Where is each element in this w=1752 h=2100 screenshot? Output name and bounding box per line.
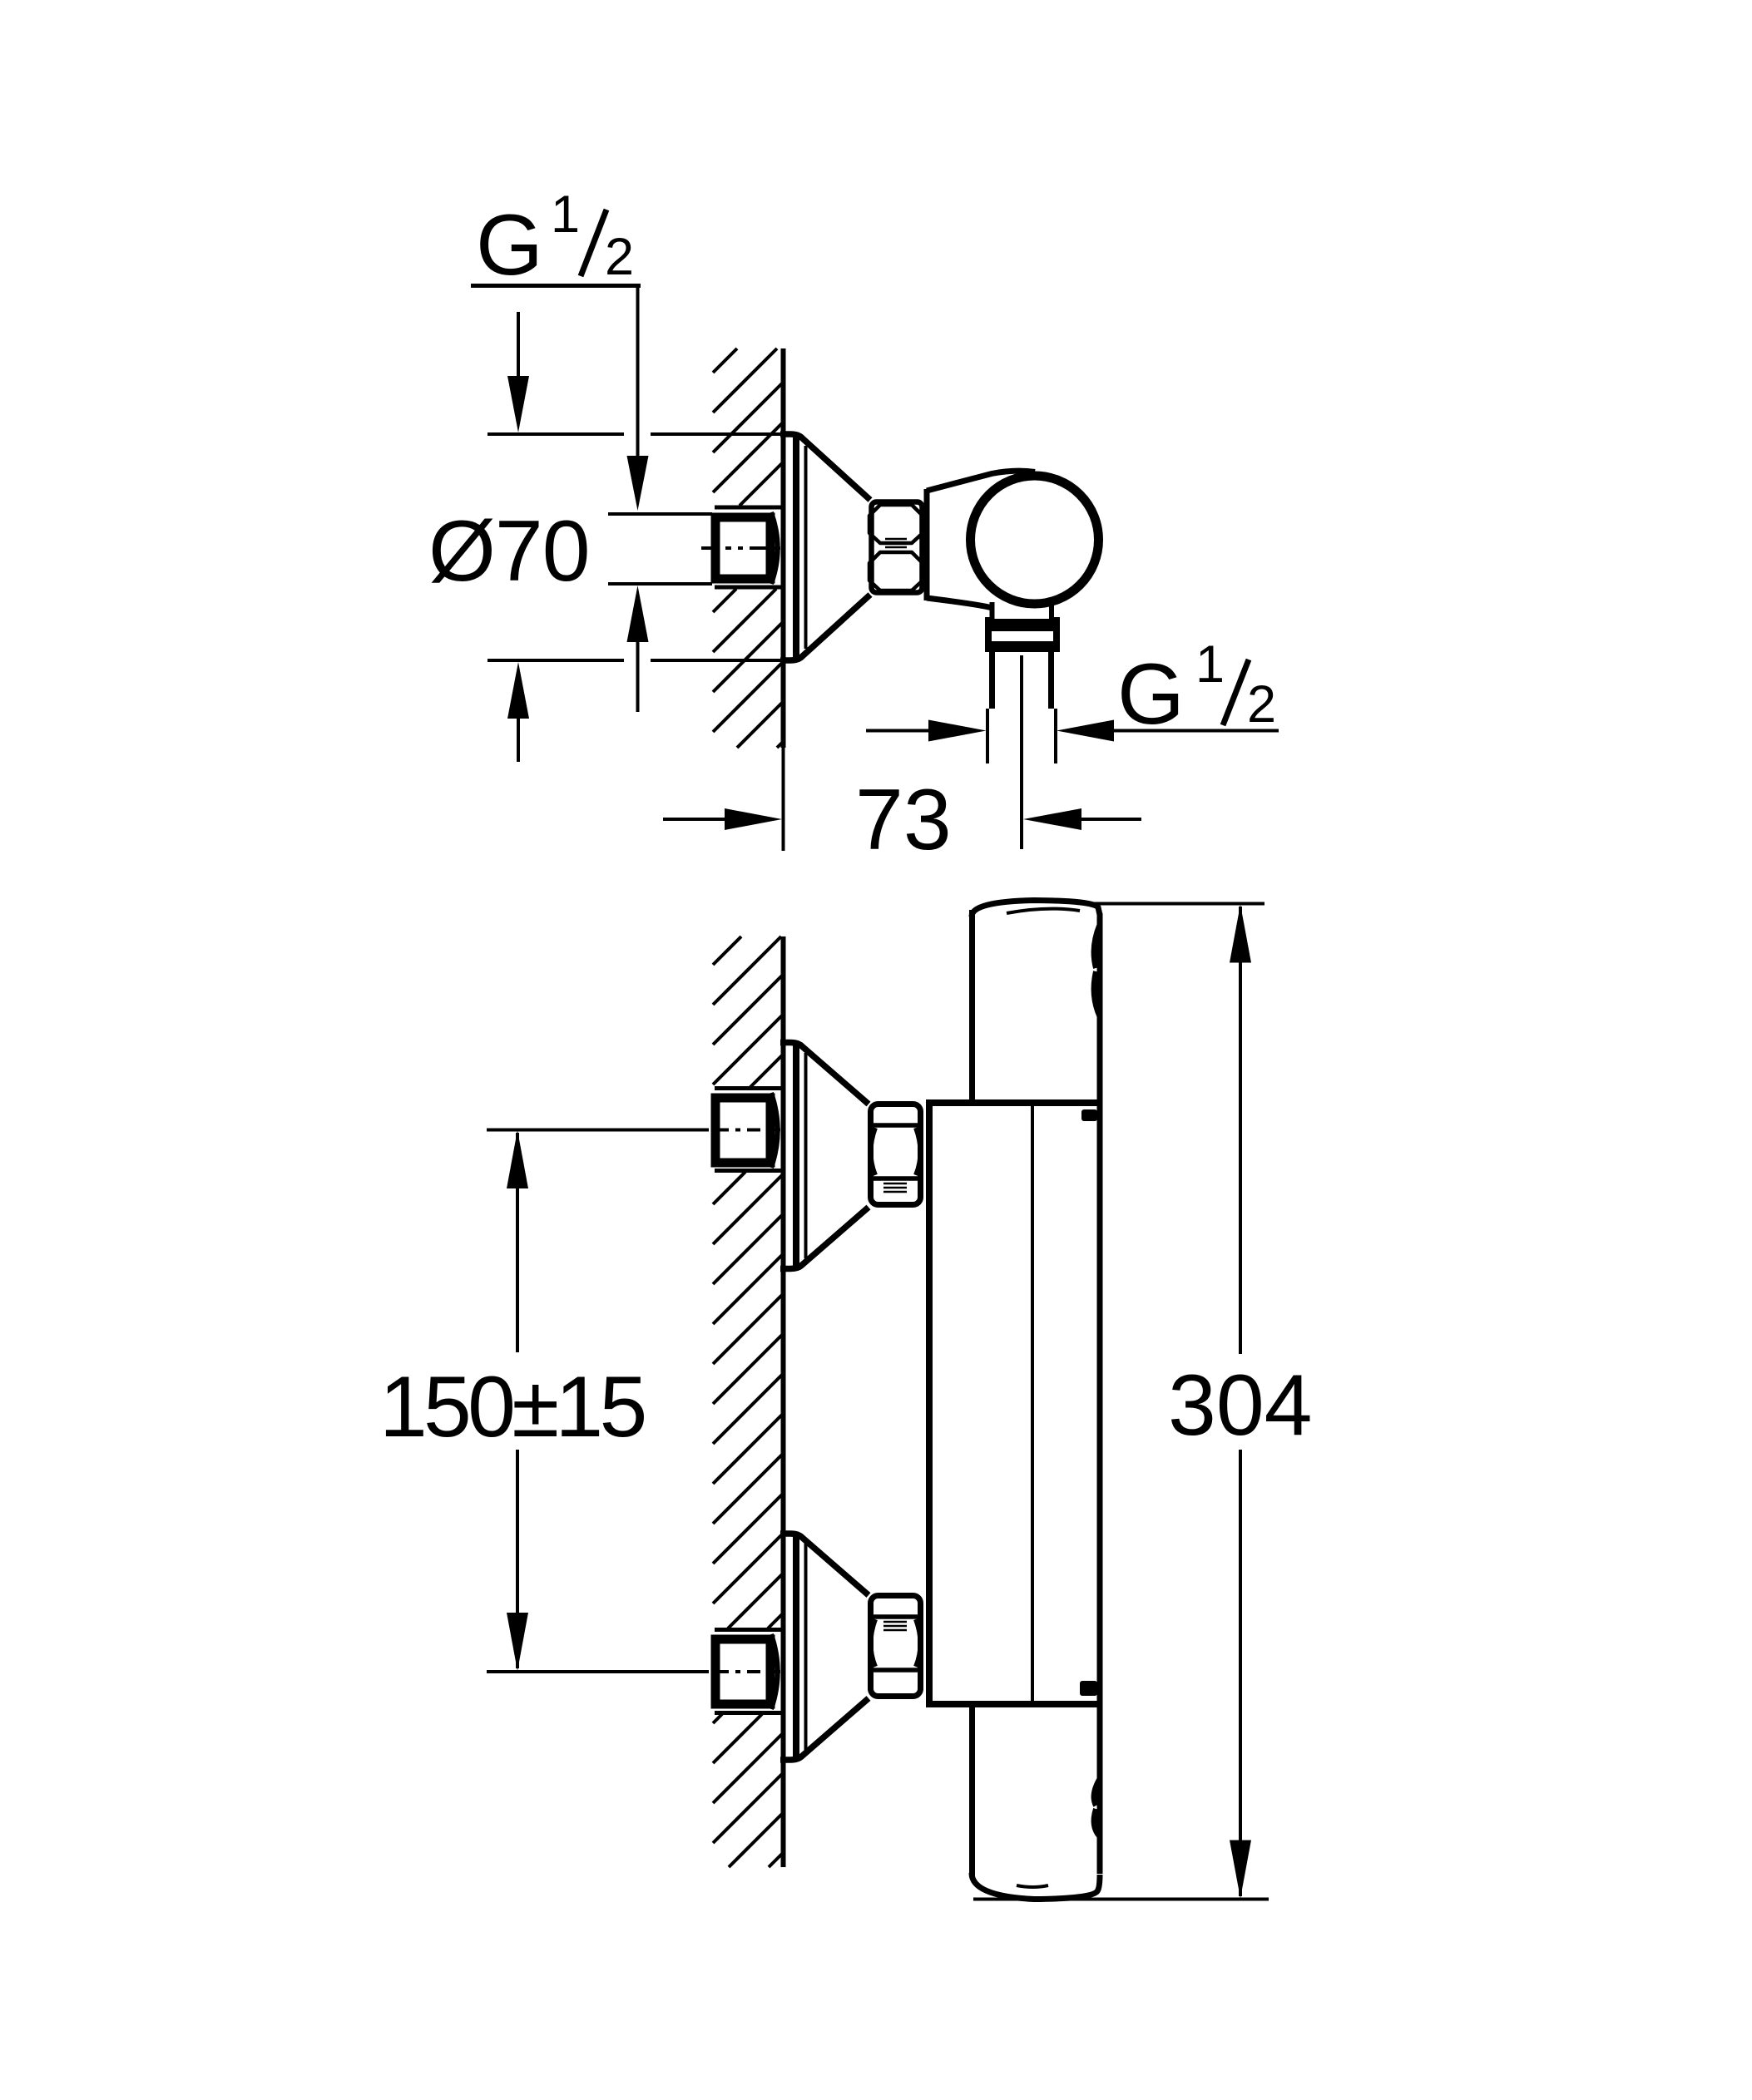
lower inlet nipple square	[715, 1639, 770, 1704]
svg-text:150±15: 150±15	[379, 1359, 644, 1455]
valve body bottom contour (top drawing)	[927, 598, 992, 608]
top cylinder (knob) sides	[969, 910, 975, 1099]
lower inlet nipple cap	[771, 1634, 778, 1709]
bottom cylinder ring arcs	[1094, 1779, 1100, 1806]
upper screw mark	[1081, 1109, 1097, 1121]
thermostat body inner vertical line	[1031, 1106, 1034, 1701]
outlet nut (top drawing)	[985, 619, 1060, 631]
extension line bottom of escutcheon (y=794) with cone bottom edge	[487, 659, 624, 662]
dimension 73 line right part	[1023, 808, 1081, 830]
upper union nut thread ticks	[883, 1183, 907, 1185]
dimension G 1/2 (bottom) left segment	[866, 729, 928, 733]
svg-text:G: G	[1117, 646, 1185, 743]
dimension 73 line left part	[663, 818, 725, 821]
svg-text:73: 73	[855, 772, 952, 868]
inlet nipple square (top drawing)	[715, 517, 770, 579]
svg-text:1: 1	[1195, 635, 1225, 694]
upper escutcheon cone edges	[780, 1043, 869, 1104]
lower screw mark	[1080, 1681, 1097, 1696]
wall face line (top drawing)	[781, 348, 786, 748]
top cylinder ring arcs	[1094, 925, 1100, 968]
lower escutcheon cone edges	[780, 1534, 869, 1595]
dimension arrow up to line 794 (O70)	[507, 662, 529, 719]
union hex nut outline (top drawing)	[872, 502, 923, 593]
dimension arrow down to line 522 (O70)	[517, 312, 520, 378]
valve body top contour (top drawing)	[927, 471, 1035, 491]
bottom cylinder (knob) sides	[969, 1704, 975, 1876]
svg-text:1: 1	[551, 185, 580, 244]
lower extension line / centerline 150 dim	[487, 1670, 709, 1673]
dimension 150+-15 line	[516, 1133, 519, 1352]
svg-text:2: 2	[1247, 675, 1276, 734]
nipple centerline dashes (top drawing)	[701, 546, 719, 550]
wall hole edge lines (top drawing)	[715, 506, 783, 510]
top cylinder dome	[972, 901, 1100, 917]
leader underline of G 1/2 label	[471, 284, 641, 288]
arrow down to nipple top line	[627, 456, 649, 511]
svg-text:G: G	[476, 197, 543, 294]
leader line down from G 1/2 label	[636, 288, 640, 456]
valve knob circle (side view)	[971, 476, 1099, 604]
svg-text:Ø70: Ø70	[428, 503, 590, 600]
upper inlet nipple square	[715, 1098, 770, 1163]
outlet pipe centerline	[1020, 655, 1023, 849]
dimension 304 arrows	[1230, 905, 1251, 963]
extension line top of escutcheon (y=522) with cone top edge	[487, 432, 624, 436]
dimension 150+-15 arrows	[507, 1130, 528, 1188]
svg-text:2: 2	[605, 228, 634, 286]
dimension G 1/2 (bottom) right segment	[1057, 720, 1114, 742]
outlet neck below knob	[990, 602, 995, 620]
union hex nut lower facet	[869, 552, 923, 590]
lower union nut outline (front view)	[871, 1596, 921, 1697]
bottom cylinder dome	[972, 1873, 1100, 1900]
inlet nipple rounded cap (top drawing)	[771, 512, 778, 584]
bottom cylinder dome inner line	[1017, 1885, 1048, 1887]
upper union nut facet lines	[870, 1123, 921, 1128]
outlet pipe thread extension lines	[986, 709, 989, 763]
wall hatching (lower drawing)	[713, 936, 741, 965]
upper wall hole edge lines	[715, 1086, 783, 1090]
thermostat body outline (front view)	[926, 1099, 933, 1707]
valve body left edge (top drawing)	[924, 489, 930, 600]
upper union nut barrel arcs	[871, 1128, 876, 1175]
dimension 304 extension lines	[1081, 902, 1265, 906]
escutcheon flange edge (top drawing)	[793, 437, 799, 657]
upper extension line / centerline 150 dim	[487, 1129, 709, 1132]
lower union nut barrel arcs	[871, 1619, 876, 1667]
arrow up to nipple bottom line	[627, 586, 649, 642]
outlet pipe (top drawing)	[989, 652, 995, 709]
upper union nut outline (front view)	[871, 1104, 921, 1205]
union hex nut upper facet	[869, 505, 923, 543]
top cylinder dome inner arc	[1007, 909, 1080, 913]
lower union nut facet lines	[870, 1614, 921, 1619]
lower union nut thread ticks	[883, 1621, 907, 1623]
upper inlet nipple cap	[771, 1093, 778, 1168]
lower wall hole edge lines	[715, 1628, 783, 1632]
svg-text:304: 304	[1168, 1357, 1313, 1454]
nipple thread extension lines	[608, 512, 712, 516]
dimension 304 line	[1239, 907, 1242, 1354]
union nut thread ticks (top drawing)	[885, 538, 907, 541]
wall hatching (top drawing)	[713, 348, 737, 373]
wall face line (lower drawing)	[781, 936, 786, 1867]
escutcheon inner edge line (top drawing)	[804, 446, 808, 649]
